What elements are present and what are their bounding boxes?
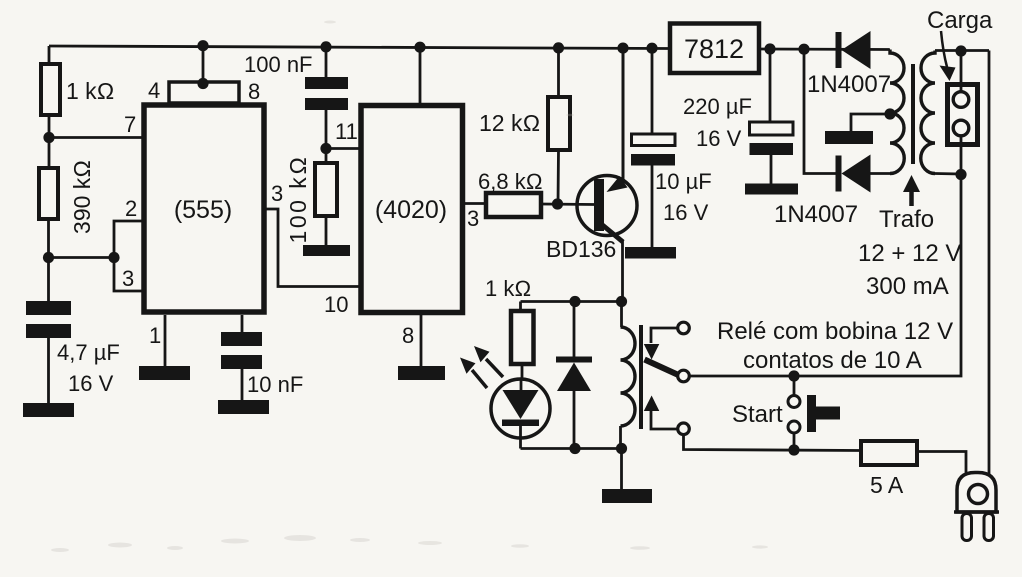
wire secondary bottom to node [935,172,961,175]
node rail above socket [955,45,966,56]
node relay coil top [616,296,627,307]
diode D1 1N4007 (top) [807,31,891,98]
svg-text:Relé com bobina 12 V: Relé com bobina 12 V [717,318,953,345]
wire pin 11 [326,119,361,149]
svg-text:16 V: 16 V [696,126,742,151]
wire relay coil stem bottom [619,426,622,449]
wire rail to 4-8 jumper [202,46,205,82]
wire NO contact down to mains run [684,435,862,451]
relay moving arm [645,360,680,376]
svg-text:10: 10 [324,292,348,317]
op IC U1 555 box [144,105,264,312]
node rail above R5 [553,42,564,53]
svg-text:16 V: 16 V [663,200,709,225]
node socket bottom junction [955,169,966,180]
capacitor C2 10 nF plates [221,332,303,397]
wire center tap [851,114,890,132]
wire rail to C4 [651,48,654,135]
ground C5 [745,184,798,195]
svg-text:12 kΩ: 12 kΩ [479,110,540,136]
svg-text:6,8 kΩ: 6,8 kΩ [478,169,543,194]
wire socket bottom to node [960,136,963,175]
wire C1 to ground [47,338,50,404]
svg-text:7812: 7812 [684,34,744,64]
node on step wire [108,252,119,263]
node on jumper top [197,78,208,89]
svg-text:(4020): (4020) [375,196,447,224]
transistor Q1 emitter arrow [607,176,628,192]
wire node to R3 [325,149,328,164]
plug P1 prong left [962,514,972,541]
wire LED branch corner [519,302,522,313]
capacitor C3 100 nF plates [244,52,348,110]
wire pin 1 to ground [149,315,165,367]
wire R4 to base node [541,203,595,206]
regulator U3 7812 [670,24,759,74]
wire R1 to node [48,115,51,140]
node rail above 4020 [414,42,425,53]
wire relay coil stem top [620,302,623,328]
wire 555 bottom to C2 [241,315,244,333]
node bottom run coil [616,443,627,454]
resistor R6 1 kOhm (LED) [485,276,534,364]
ground R3 [303,245,350,256]
wire emitter from rail [622,48,625,181]
transformer T1 primary winding [890,50,904,174]
ground C4 [625,247,676,259]
node pin 11 junction [320,143,331,154]
relay common terminal [678,370,690,382]
wire D3 stem top [573,302,576,358]
wire 4020 pin 8 to ground [402,315,421,367]
resistor R3 100 kOhm [285,155,337,244]
plug P1 body [954,473,999,513]
capacitor C1 4,7 uF plates [26,301,120,396]
node start bottom [788,444,799,455]
wire collector down [621,240,624,302]
wire collector run to LED branch [521,300,623,303]
capacitor C5 220 uF (polarized) [683,94,793,155]
svg-text:12 + 12 V: 12 + 12 V [858,240,961,267]
ground C1 [23,403,74,417]
wire C2 to ground [241,369,244,401]
wire R5 to base node [557,150,560,204]
ground relay/LED [602,489,652,503]
transistor Q1 collector diagonal [600,223,623,242]
svg-text:8: 8 [402,323,414,348]
resistor R5 12 kOhm [479,97,570,150]
wire to ground relay [620,449,623,491]
diode D3 flyback [556,357,592,392]
label Carga with arrow [927,7,993,81]
svg-text:1: 1 [149,323,161,348]
resistor R1 1 kOhm [41,64,114,115]
svg-text:1N4007: 1N4007 [807,71,891,98]
svg-text:BD136: BD136 [546,236,616,262]
svg-text:Trafo: Trafo [879,206,934,233]
svg-text:100 kΩ: 100 kΩ [285,155,311,244]
svg-text:2: 2 [125,196,137,221]
center tap terminal bar [825,131,873,144]
ground C2 [218,400,269,414]
svg-text:1 kΩ: 1 kΩ [485,276,531,301]
socket contact top [953,92,969,108]
svg-text:4: 4 [148,78,160,103]
wire R6 to LED [521,364,524,380]
svg-text:10 µF: 10 µF [655,169,712,194]
svg-text:3: 3 [122,266,134,291]
capacitor C4 10 uF (polarized) [631,134,712,225]
wire rail to 4020 top [419,47,422,106]
LED light arrow a [474,346,503,377]
node rail above C5 [764,43,775,54]
node center tap [884,108,895,119]
wire C4 to ground [651,166,654,249]
svg-text:300 mA: 300 mA [866,273,949,300]
relay contact NO terminal [644,396,690,435]
wire rail to R5 [557,48,560,97]
wire secondary top to right edge [935,49,989,52]
ground pin 1 [139,366,190,380]
svg-text:220 µF: 220 µF [683,94,752,119]
wire C1 branch down [47,258,50,303]
label relay [717,318,953,374]
node start top [788,370,799,381]
svg-text:3: 3 [271,181,283,206]
node rail rectifier branch [798,44,809,55]
wire LED/diode/coil bottom run [521,447,622,450]
diode D2 1N4007 (bottom) [774,155,871,229]
wire rail into socket [960,51,963,92]
svg-text:Start: Start [732,401,783,428]
transformer T1 core [911,64,915,164]
wire top rail right segment (through D1 row) [759,48,890,51]
wire node to R2 [48,140,51,167]
node base junction [552,198,563,209]
svg-text:contatos de 10 A: contatos de 10 A [743,347,922,374]
LED light arrow b [460,358,487,389]
wire pin2-pin3 step [114,196,142,291]
svg-text:7: 7 [124,112,136,137]
svg-text:Carga: Carga [927,7,993,34]
wire right edge vertical to plug [988,51,991,475]
wire C5 to ground [770,155,773,184]
node junction R1/R2/pin7 [43,132,54,143]
plug P1 prong right [984,514,994,541]
transistor Q1 BD136 circle [546,176,637,263]
node on rail above jumper [197,40,208,51]
wire R3 to ground [325,216,328,246]
IC U2 4020 box [361,106,463,313]
transistor Q1 base bar [594,179,604,231]
fuse F1 5 A [861,441,917,498]
resistor R2 390 kOhm [39,160,95,234]
node rail above C3 [320,41,331,52]
svg-text:11: 11 [335,119,358,144]
relay contact NC terminal [644,322,690,359]
wire left vertical to D2 row [804,49,836,173]
wire socket node down and left to relay common [689,175,961,377]
label Trafo with arrow [879,175,934,233]
switch S1 Start pushbutton [732,376,840,450]
svg-text:1 kΩ: 1 kΩ [66,78,114,104]
relay K1 armature bar [639,325,643,429]
svg-text:1N4007: 1N4007 [774,201,858,228]
wire node to pins 2/3 step [49,256,115,259]
wire fuse to plug [917,452,966,474]
svg-text:(555): (555) [174,196,232,224]
node bottom run D3 [569,443,580,454]
label transformer rating [858,240,961,300]
svg-text:390 kΩ: 390 kΩ [69,160,95,234]
node junction R2/C1 [43,252,54,263]
socket Carga box [948,85,978,145]
wire C3 to pin 11 node [325,110,328,149]
LED D4 [491,379,550,449]
socket contact bottom [953,120,969,136]
node rail emitter [617,43,628,54]
wire rail to C3 [325,47,328,78]
svg-text:8: 8 [248,79,260,104]
svg-text:3: 3 [467,206,479,231]
svg-text:5 A: 5 A [870,472,904,498]
svg-text:100 nF: 100 nF [244,52,313,77]
transformer T1 secondary winding [921,51,935,174]
wire R2 to node [47,219,50,258]
jumper pins 4-8 box [148,78,260,104]
ground 4020 pin 8 [398,366,445,380]
wire rail to R1 top [48,46,51,63]
wire D3 stem bottom [573,391,576,449]
node rail above C4 [646,43,657,54]
wire 4020 pin 3 output [463,204,487,232]
svg-text:4,7 µF: 4,7 µF [57,340,120,365]
wire D2 to primary bottom [870,172,890,175]
wire top supply rail left segment [49,46,670,49]
node diode D3 top [569,296,580,307]
wire pin 7 [49,112,142,138]
relay K1 coil [621,327,636,426]
svg-text:10 nF: 10 nF [247,372,303,397]
wire 555 pin3 to 4020 pin10 step [264,181,361,317]
svg-text:16 V: 16 V [68,371,114,396]
resistor R4 6,8 kOhm [478,169,543,217]
wire rail to C5 [769,49,772,123]
